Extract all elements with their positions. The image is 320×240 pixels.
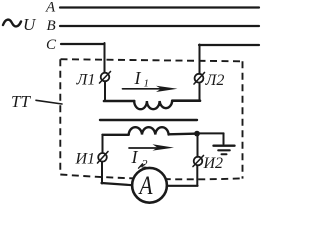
svg-text:A: A [45,0,56,16]
svg-text:B: B [47,18,56,34]
wire C down to L1 [104,43,106,73]
wire L2 up [199,45,201,74]
node junction dot [194,131,200,137]
wire secondary top left [103,134,129,136]
svg-text:A: A [138,172,153,200]
wire phase B [60,25,259,27]
svg-text:И2: И2 [203,155,224,172]
terminal L1 [101,73,110,82]
terminal I1sec [98,153,107,162]
terminal L2 [195,74,204,83]
wire below I1sec [101,162,103,184]
source tilde [3,20,21,27]
svg-text:Л2: Л2 [205,72,225,89]
wire ammeter right [167,185,198,187]
wire I2sec up to node [197,134,199,157]
ammeter A [132,168,167,203]
wire up to I2sec [196,165,198,185]
svg-text:1: 1 [144,78,150,90]
secondary winding humps [129,127,169,134]
dashed box TT [60,59,242,179]
wire secondary top right [169,132,199,135]
wire phase C right [199,44,259,46]
squiggle above ammeter [139,163,145,168]
core line [100,119,197,121]
wire primary left [104,100,134,103]
wire L1 down [104,81,106,100]
ground symbol [214,144,235,146]
wire phase C left [61,43,105,45]
svg-text:I: I [134,68,142,88]
svg-text:И1: И1 [75,151,96,168]
arrow I1 [123,88,169,90]
wire phase A [60,6,259,8]
wire bottom left to ammeter [102,183,133,185]
leader line TT [36,100,62,104]
svg-text:I: I [131,147,139,167]
terminal I2sec [194,157,203,166]
wire primary right [172,99,200,102]
svg-text:U: U [23,15,37,34]
wire up to L2 [199,83,201,101]
svg-text:ТТ: ТТ [11,92,31,111]
arrow I2 [129,147,164,149]
svg-text:Л1: Л1 [76,72,96,89]
svg-text:C: C [46,37,57,53]
ground branch wire [197,132,224,134]
wire secondary left down [102,135,104,153]
primary winding humps [134,101,172,109]
